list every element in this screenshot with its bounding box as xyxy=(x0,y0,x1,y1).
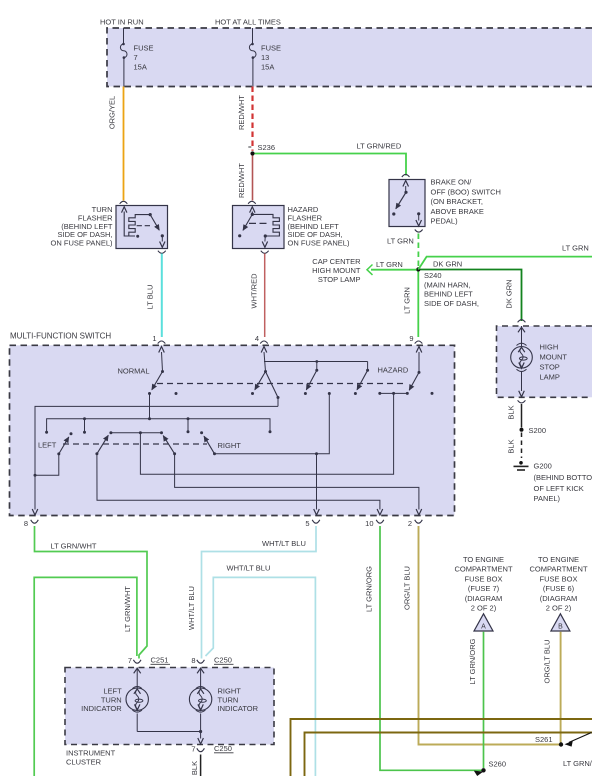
svg-text:ABOVE BRAKE: ABOVE BRAKE xyxy=(431,207,484,216)
svg-text:S260: S260 xyxy=(489,760,507,769)
svg-text:(FUSE 6): (FUSE 6) xyxy=(543,584,575,593)
wire LT GRN/WHT branch to bottom xyxy=(34,577,137,776)
instrument cluster xyxy=(65,668,274,767)
svg-text:BLK: BLK xyxy=(507,405,516,419)
multi-function switch xyxy=(10,332,455,516)
wire BLK S200 to ground xyxy=(507,433,522,459)
wire ORG/LT BLU connector B to S261 xyxy=(543,632,561,743)
svg-text:RED/WHT: RED/WHT xyxy=(237,163,246,198)
svg-text:S200: S200 xyxy=(529,426,547,435)
svg-text:OFF (BOO) SWITCH: OFF (BOO) SWITCH xyxy=(431,187,501,196)
svg-text:7: 7 xyxy=(134,53,138,62)
connector C251 pin 7 xyxy=(128,656,170,666)
svg-text:FUSE BOX: FUSE BOX xyxy=(540,574,578,583)
wire RED/WHT fuse13 to S236 xyxy=(237,87,253,151)
svg-text:2 OF 2): 2 OF 2) xyxy=(471,604,497,613)
svg-text:1: 1 xyxy=(152,334,156,343)
svg-text:DK GRN: DK GRN xyxy=(505,279,514,308)
svg-text:COMPARTMENT: COMPARTMENT xyxy=(529,565,587,574)
fuse 13 15A xyxy=(249,28,281,87)
svg-text:PANEL): PANEL) xyxy=(534,494,561,503)
svg-text:ORG/YEL: ORG/YEL xyxy=(108,96,117,129)
svg-text:RIGHT: RIGHT xyxy=(218,441,242,450)
wire WHT/RED hazard flasher to MFS pin 4 xyxy=(250,254,265,338)
contact dot (unused) right of hazard xyxy=(431,392,434,395)
svg-text:C250: C250 xyxy=(214,744,232,753)
svg-text:MOUNT: MOUNT xyxy=(540,353,568,362)
wire BLK instrument cluster to bottom xyxy=(190,755,201,776)
label cap center high mount stop lamp xyxy=(312,257,361,284)
left turn indicator lamp xyxy=(81,668,148,732)
svg-text:TO ENGINE: TO ENGINE xyxy=(463,555,504,564)
off-page connector A xyxy=(474,614,493,631)
wire RED/WHT S236 to hazard flasher xyxy=(237,156,253,201)
svg-text:WHT/LT BLU: WHT/LT BLU xyxy=(187,586,196,630)
right turn indicator lamp xyxy=(189,668,258,739)
wire WHT/LT BLU pin 5 to C250 xyxy=(187,526,316,659)
svg-text:(MAIN HARN,: (MAIN HARN, xyxy=(424,280,471,289)
MFS pin 4 xyxy=(255,334,268,344)
svg-text:HAZARD: HAZARD xyxy=(378,366,409,375)
svg-text:LEFT: LEFT xyxy=(38,441,57,450)
label to engine compartment fuse box (fuse 6) xyxy=(529,555,587,613)
svg-text:CAP CENTER: CAP CENTER xyxy=(312,257,361,266)
svg-text:LT BLU: LT BLU xyxy=(146,285,155,310)
svg-text:LT GRN: LT GRN xyxy=(376,260,403,269)
svg-text:LT GRN/WHT: LT GRN/WHT xyxy=(123,586,132,632)
svg-text:LT GRN/RED: LT GRN/RED xyxy=(357,142,402,151)
hazard flasher xyxy=(233,201,350,253)
MFS pin 8 xyxy=(24,519,38,528)
MFS switch from pin 4 xyxy=(251,347,280,400)
wire BLK lamp to S200 xyxy=(507,400,526,427)
svg-text:TO ENGINE: TO ENGINE xyxy=(538,555,579,564)
svg-text:C251: C251 xyxy=(151,656,169,665)
svg-text:BLK: BLK xyxy=(190,761,199,775)
node S240 xyxy=(416,267,420,271)
svg-text:LT GRN/: LT GRN/ xyxy=(563,759,592,768)
high mount stop lamp xyxy=(497,326,592,397)
svg-text:INDICATOR: INDICATOR xyxy=(218,704,259,713)
svg-text:TURN: TURN xyxy=(218,695,239,704)
connector C250 pin 8 xyxy=(191,656,233,666)
MFS hazard row branch from pin 4 xyxy=(264,360,368,363)
svg-text:B: B xyxy=(558,624,563,631)
svg-text:10: 10 xyxy=(365,519,373,528)
center contact bar xyxy=(109,431,163,434)
wire WHT/LT BLU branch to bottom xyxy=(206,564,316,776)
mechanical link (dashed) normal-hazard xyxy=(157,383,405,385)
node S261 xyxy=(535,733,592,747)
svg-text:7: 7 xyxy=(191,745,195,754)
svg-text:BRAKE ON/: BRAKE ON/ xyxy=(431,178,473,187)
left switch blade xyxy=(35,432,73,475)
wire ORG/LT BLU pin 2 to S261 xyxy=(403,526,560,745)
svg-text:(BEHIND BOTTOM: (BEHIND BOTTOM xyxy=(534,473,592,482)
wire LT GRN/ORG pin 10 to S260 xyxy=(365,526,483,770)
left blade to pin 10 xyxy=(95,435,382,515)
svg-text:ORG/LT BLU: ORG/LT BLU xyxy=(543,640,552,684)
svg-text:ORG/LT BLU: ORG/LT BLU xyxy=(403,566,412,610)
wire LT GRN brake switch to S240 xyxy=(387,230,423,267)
svg-text:(ON BRACKET,: (ON BRACKET, xyxy=(431,197,484,206)
wire DK GRN S240 to high mount stop lamp xyxy=(420,260,525,323)
MFS pin 5 xyxy=(305,519,319,528)
svg-text:WHT/LT BLU: WHT/LT BLU xyxy=(262,539,306,548)
right blade to pin 2 xyxy=(163,436,422,515)
svg-text:STOP: STOP xyxy=(540,363,560,372)
wire LT GRN/RED S236 to brake switch xyxy=(255,142,410,178)
svg-text:RED/WHT: RED/WHT xyxy=(237,95,246,130)
contact dot (unused) xyxy=(175,392,178,395)
wire LT GRN S240 to MFS pin 9 xyxy=(403,272,419,338)
svg-text:PEDAL): PEDAL) xyxy=(431,217,459,226)
svg-text:(DIAGRAM: (DIAGRAM xyxy=(540,594,578,603)
fuse 7 15A xyxy=(120,28,153,87)
bus B xyxy=(45,417,271,434)
bus A xyxy=(32,398,278,516)
MFS pin 2 xyxy=(408,519,422,528)
node S260 xyxy=(474,760,506,776)
svg-text:TURN: TURN xyxy=(101,695,122,704)
svg-text:LEFT: LEFT xyxy=(103,687,122,696)
svg-text:LT GRN: LT GRN xyxy=(562,244,589,253)
label to engine compartment fuse box (fuse 7) xyxy=(454,555,512,613)
svg-text:FUSE: FUSE xyxy=(134,44,154,53)
svg-text:LT GRN/ORG: LT GRN/ORG xyxy=(365,566,374,612)
svg-text:LAMP: LAMP xyxy=(540,373,560,382)
off-page connector B xyxy=(551,614,570,631)
svg-text:INSTRUMENT: INSTRUMENT xyxy=(66,749,116,758)
svg-text:FUSE BOX: FUSE BOX xyxy=(465,574,503,583)
MFS pin 1 xyxy=(152,334,165,344)
wire ORG/LT BLU from bottom edge to right edge (inner) xyxy=(305,733,592,776)
svg-text:MULTI-FUNCTION SWITCH: MULTI-FUNCTION SWITCH xyxy=(10,332,111,341)
brake on/off (BOO) switch xyxy=(389,178,501,227)
svg-text:NORMAL: NORMAL xyxy=(118,367,150,376)
wire hazard contact to pin 2 branch xyxy=(140,392,407,474)
svg-text:COMPARTMENT: COMPARTMENT xyxy=(454,565,512,574)
svg-text:15A: 15A xyxy=(261,63,274,72)
svg-text:INDICATOR: INDICATOR xyxy=(81,704,122,713)
svg-text:C250: C250 xyxy=(214,656,232,665)
right switch blade to pin 5 xyxy=(200,392,331,515)
svg-text:S236: S236 xyxy=(258,143,276,152)
svg-text:BEHIND LEFT: BEHIND LEFT xyxy=(424,290,473,299)
svg-text:HIGH MOUNT: HIGH MOUNT xyxy=(312,266,361,275)
MFS normal switch from pin 1 xyxy=(148,347,164,419)
MFS pin 10 xyxy=(365,519,384,528)
svg-text:8: 8 xyxy=(24,519,28,528)
svg-text:RIGHT: RIGHT xyxy=(218,687,242,696)
wire ORG/LT BLU from bottom edge to right edge (outer) xyxy=(291,719,592,776)
svg-text:HOT AT ALL TIMES: HOT AT ALL TIMES xyxy=(215,18,281,27)
svg-text:ON FUSE PANEL): ON FUSE PANEL) xyxy=(288,239,350,248)
wire lamps common to C250 pin 7 xyxy=(137,730,203,744)
node S236 xyxy=(248,143,275,156)
svg-text:7: 7 xyxy=(128,656,132,665)
svg-text:WHT/LT BLU: WHT/LT BLU xyxy=(227,564,271,573)
svg-text:HOT IN RUN: HOT IN RUN xyxy=(100,18,144,27)
fuse box (hot at all times) xyxy=(107,28,592,87)
svg-text:2 OF 2): 2 OF 2) xyxy=(546,604,572,613)
svg-text:13: 13 xyxy=(261,53,269,62)
svg-text:CLUSTER: CLUSTER xyxy=(66,757,102,766)
MFS hazard contact 1 xyxy=(304,362,318,396)
svg-text:STOP LAMP: STOP LAMP xyxy=(318,275,361,284)
svg-text:A: A xyxy=(481,624,486,631)
svg-text:15A: 15A xyxy=(134,63,147,72)
svg-text:BLK: BLK xyxy=(507,439,516,453)
svg-text:LT GRN/WHT: LT GRN/WHT xyxy=(51,542,97,551)
wire LT GRN S240 to cap center high mount stop lamp xyxy=(367,260,417,275)
svg-text:2: 2 xyxy=(408,519,412,528)
svg-text:S261: S261 xyxy=(535,735,553,744)
svg-text:LT GRN/ORG: LT GRN/ORG xyxy=(468,638,477,684)
node S200 xyxy=(520,426,547,435)
wire LT BLU turn flasher to MFS pin 1 xyxy=(146,254,162,338)
svg-text:DK GRN: DK GRN xyxy=(433,260,462,269)
mechanical link (dashed) left-right xyxy=(63,443,207,445)
svg-text:(FUSE 7): (FUSE 7) xyxy=(468,584,500,593)
MFS pin 9 xyxy=(409,334,422,344)
svg-text:8: 8 xyxy=(191,656,195,665)
MFS hazard contact 2 xyxy=(354,362,369,396)
wire LT GRN/WHT pin 8 to C251 xyxy=(35,526,148,659)
svg-text:WHT/RED: WHT/RED xyxy=(250,273,259,309)
svg-text:5: 5 xyxy=(305,519,309,528)
S240 text xyxy=(424,271,479,308)
wire LT GRN S240 to right edge xyxy=(418,244,592,270)
turn flasher xyxy=(51,201,168,253)
wire LT GRN/ORG connector A to S260 xyxy=(468,632,484,768)
connector C250 pin 7 (bottom) xyxy=(191,744,233,754)
svg-text:HIGH: HIGH xyxy=(540,343,559,352)
svg-text:9: 9 xyxy=(409,334,413,343)
svg-text:SIDE OF DASH,: SIDE OF DASH, xyxy=(424,299,479,308)
ground G200 xyxy=(514,461,592,503)
wire ORG/YEL fuse7 to turn flasher xyxy=(108,87,124,201)
svg-text:(DIAGRAM: (DIAGRAM xyxy=(465,594,503,603)
svg-text:LT GRN: LT GRN xyxy=(387,237,414,246)
svg-text:4: 4 xyxy=(255,334,259,343)
svg-text:FUSE: FUSE xyxy=(261,44,281,53)
svg-text:G200: G200 xyxy=(534,462,552,471)
svg-text:S240: S240 xyxy=(424,271,442,280)
svg-text:ON FUSE PANEL): ON FUSE PANEL) xyxy=(51,239,113,248)
MFS hazard switch from pin 9 xyxy=(406,347,422,395)
svg-text:LT GRN: LT GRN xyxy=(403,287,412,314)
svg-text:OF LEFT KICK: OF LEFT KICK xyxy=(534,484,584,493)
